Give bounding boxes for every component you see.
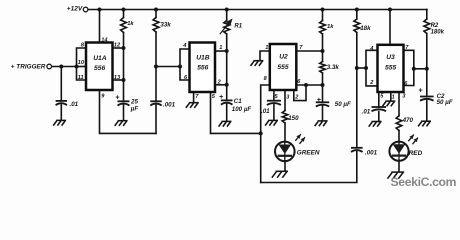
- svg-text:180k: 180k: [431, 30, 445, 36]
- svg-text:18k: 18k: [360, 25, 371, 32]
- svg-text:14: 14: [101, 37, 108, 43]
- svg-text:+: +: [317, 97, 321, 104]
- svg-text:50 µF: 50 µF: [437, 99, 453, 106]
- svg-text:R1: R1: [234, 24, 242, 30]
- svg-text:13: 13: [114, 75, 121, 81]
- svg-text:GREEN: GREEN: [297, 150, 320, 157]
- svg-text:1: 1: [392, 95, 395, 101]
- svg-text:U1A: U1A: [93, 55, 107, 62]
- svg-text:SeekiC.com: SeekiC.com: [391, 175, 457, 189]
- svg-text:100 µF: 100 µF: [232, 106, 252, 113]
- svg-text:556: 556: [197, 65, 208, 72]
- svg-text:.001: .001: [365, 150, 378, 157]
- svg-text:470: 470: [402, 117, 414, 124]
- svg-text:+: +: [418, 87, 422, 94]
- svg-text:555: 555: [385, 64, 396, 71]
- svg-text:U1B: U1B: [196, 55, 210, 62]
- svg-text:.001: .001: [163, 101, 176, 108]
- svg-text:10: 10: [78, 60, 85, 66]
- svg-text:3.3k: 3.3k: [327, 64, 340, 71]
- svg-text:25: 25: [130, 98, 138, 105]
- svg-text:12: 12: [114, 42, 121, 48]
- svg-text:1k: 1k: [127, 21, 134, 27]
- svg-text:µF: µF: [130, 106, 139, 113]
- svg-text:R2: R2: [431, 23, 439, 29]
- svg-text:555: 555: [277, 64, 288, 71]
- svg-text:U2: U2: [279, 54, 288, 61]
- svg-text:50 µF: 50 µF: [335, 101, 351, 108]
- svg-text:33k: 33k: [160, 21, 171, 28]
- svg-text:1: 1: [265, 45, 268, 51]
- svg-text:1: 1: [219, 45, 222, 51]
- svg-text:U3: U3: [386, 54, 395, 61]
- svg-text:556: 556: [94, 65, 105, 72]
- svg-text:1k: 1k: [327, 24, 334, 30]
- svg-text:.01: .01: [70, 101, 79, 108]
- svg-text:11: 11: [78, 75, 84, 81]
- svg-text:C1: C1: [234, 98, 242, 105]
- svg-text:+: +: [115, 95, 119, 102]
- svg-text:.01: .01: [261, 108, 270, 115]
- svg-text:+: +: [219, 94, 223, 101]
- svg-text:150: 150: [288, 115, 299, 122]
- svg-text:.01: .01: [362, 108, 371, 115]
- svg-text:+ TRIGGER: + TRIGGER: [11, 64, 46, 71]
- svg-text:+12V: +12V: [67, 5, 83, 12]
- svg-text:RED: RED: [409, 150, 423, 157]
